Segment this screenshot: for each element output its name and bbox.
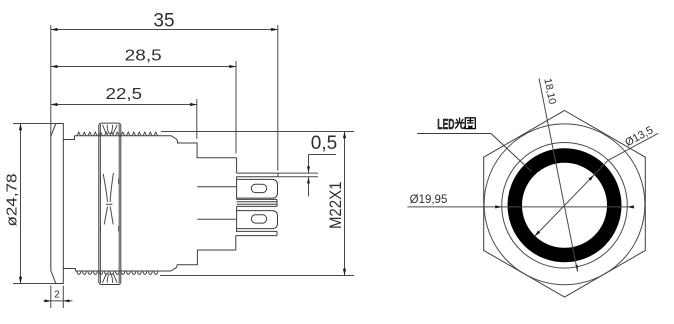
svg-text:ø24,78: ø24,78 bbox=[4, 174, 21, 227]
svg-text:28,5: 28,5 bbox=[125, 47, 162, 64]
svg-text:M22X1: M22X1 bbox=[326, 182, 345, 230]
svg-text:Ø13,5: Ø13,5 bbox=[623, 124, 655, 149]
svg-text:22,5: 22,5 bbox=[106, 86, 143, 103]
svg-text:0,5: 0,5 bbox=[311, 133, 337, 154]
svg-text:2: 2 bbox=[54, 290, 60, 301]
svg-text:LED: LED bbox=[437, 116, 454, 133]
svg-text:Ø19,95: Ø19,95 bbox=[410, 194, 448, 206]
svg-text:35: 35 bbox=[153, 11, 174, 32]
